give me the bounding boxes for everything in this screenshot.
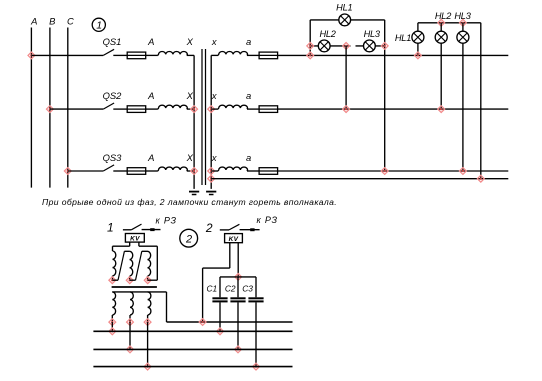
wire row2 to switch [50, 108, 103, 110]
node HL1g2-row1 [415, 52, 422, 59]
inductor primary winding row3 [158, 167, 187, 171]
node W2a bottom [126, 277, 133, 284]
svg-text:QS1: QS1 [103, 36, 122, 47]
fuse row3 primary [127, 168, 146, 175]
svg-text:X: X [186, 152, 194, 163]
wire fuse-to-coil row2 [146, 108, 158, 110]
node C phase label [67, 16, 74, 27]
inductor secondary winding row1 [218, 51, 247, 55]
node secondary common row3 [208, 168, 215, 175]
svg-text:B: B [49, 16, 55, 27]
label item 1 [107, 221, 114, 235]
capacitor C2 [230, 298, 245, 301]
label C1 [206, 284, 217, 294]
capacitor C1 [212, 298, 227, 301]
wire coil-to-common row1 [187, 54, 194, 56]
wire HL2 group2 drop [440, 23, 442, 109]
node bus-HL3 group2 [460, 19, 467, 26]
fuse row1 secondary [259, 52, 278, 59]
node W1 bottom [109, 319, 116, 326]
label C2 [225, 284, 236, 294]
svg-text:a: a [246, 90, 251, 101]
svg-text:A: A [147, 36, 154, 47]
node junction phase-row QS1 [28, 52, 35, 59]
wire C3 bottom lead [255, 302, 257, 366]
svg-text:KV: KV [130, 235, 140, 242]
winding W2 T2 primary [130, 292, 133, 322]
label a terminal row3 [246, 152, 251, 163]
switch S2 [220, 224, 260, 230]
wire HL1 group2 drop [417, 23, 419, 56]
node C1-bus [217, 328, 224, 335]
wire C1 top lead [219, 277, 221, 297]
svg-text:HL3: HL3 [454, 11, 471, 21]
switch QS3 [103, 165, 127, 171]
node HL3g2-row3 [460, 168, 467, 175]
node C2-bus [235, 346, 242, 353]
fuse row3 secondary [259, 168, 278, 175]
winding W3 T2 primary [148, 292, 151, 322]
wire coil-to-fuse secondary row3 [247, 170, 259, 172]
winding W2a T2 upper [130, 251, 133, 280]
wire link W2a-W3a [130, 251, 148, 280]
node W1-bus1 [109, 328, 116, 335]
wire delta close right [148, 246, 158, 280]
svg-text:X: X [186, 36, 194, 47]
wire C1 bottom lead [219, 302, 221, 331]
wire fuse-to-coil row3 [146, 170, 158, 172]
switch S1 [123, 224, 161, 230]
svg-text:C1: C1 [206, 284, 217, 294]
inductor secondary winding row3 [218, 167, 247, 171]
node loop-left [307, 43, 314, 50]
label X terminal row2 [186, 90, 194, 101]
label X terminal row1 [186, 36, 194, 47]
transformer core T1 [202, 49, 206, 185]
wire primary common vertical [193, 55, 195, 189]
winding W1 T2 primary [112, 292, 115, 322]
label x terminal row2 [211, 90, 217, 101]
label x terminal row3 [211, 152, 217, 163]
node HL2g2-row2 [438, 106, 445, 113]
node loop-left to row1 [307, 52, 314, 59]
wire secondary line row2 [278, 108, 509, 110]
label k RZ item1 [156, 216, 177, 226]
lamp HL1 group1 [339, 14, 351, 26]
wire HL2-HL3 branch [310, 45, 385, 47]
label a terminal row2 [246, 90, 251, 101]
node W3a bottom [144, 277, 151, 284]
lamp HL1 group2 [412, 31, 424, 43]
label QS1 [103, 36, 122, 47]
label X terminal row3 [186, 152, 194, 163]
lamp HL2 group2 [435, 31, 447, 43]
svg-text:A: A [30, 16, 37, 27]
wire common-to-coil secondary row3 [211, 170, 218, 172]
wire lamp-bus group2 [418, 22, 481, 24]
wire C3 top lead [255, 277, 257, 297]
node junction phase-row QS2 [47, 106, 54, 113]
wire coil-to-fuse secondary row2 [247, 108, 259, 110]
svg-text:QS3: QS3 [103, 152, 123, 163]
wire star-to-KV2 connector [167, 321, 293, 323]
label k RZ item2 [257, 215, 278, 225]
wire coil-to-common row2 [187, 108, 194, 110]
node secondary common row2 [208, 106, 215, 113]
label x terminal row1 [211, 36, 217, 47]
wire fuse-to-coil row1 [146, 54, 158, 56]
node W2 bottom [127, 319, 134, 326]
switch QS1 [103, 49, 127, 55]
wire phase B vertical [49, 28, 51, 188]
caption text [42, 197, 337, 207]
wire phase A vertical [30, 28, 32, 188]
wire KV1 lead right [138, 242, 140, 246]
node secondary neutral tap [208, 175, 215, 182]
node C3-bus [253, 363, 260, 370]
wire phase C vertical [67, 28, 69, 188]
wire secondary line row1 [278, 54, 509, 56]
label HL1 group2 [395, 33, 411, 43]
wire lamp-loop top [310, 19, 385, 21]
wire KV1 lead left [129, 242, 131, 246]
label item 2 [205, 221, 213, 235]
wire capacitor top bus [220, 276, 256, 278]
svg-text:x: x [211, 152, 217, 163]
label HL1 group1 [336, 3, 352, 13]
label A terminal row3 [147, 152, 154, 163]
switch QS2 [103, 103, 127, 109]
fuse row1 primary [127, 52, 146, 59]
wire common-to-coil secondary row1 [211, 54, 218, 56]
svg-text:KV: KV [229, 236, 239, 243]
svg-text:1: 1 [107, 221, 114, 235]
node connector-KV2 [199, 319, 206, 326]
node B phase label [49, 16, 55, 27]
svg-text:к РЗ: к РЗ [156, 216, 177, 226]
inductor secondary winding row2 [218, 105, 247, 109]
lamp HL3 group2 [457, 31, 469, 43]
label HL2 group2 [435, 11, 451, 21]
wire T2 star point drop [166, 292, 168, 322]
label HL3 group2 [454, 11, 471, 21]
wire common-to-coil secondary row2 [211, 108, 218, 110]
capacitor C3 [248, 298, 263, 301]
node primary common row2 [191, 106, 198, 113]
label HL2 group1 [319, 29, 335, 39]
inductor primary winding row1 [158, 51, 187, 55]
svg-text:C: C [67, 16, 74, 27]
transformer core T2 [112, 286, 157, 288]
wire neutral line row4 [211, 178, 508, 180]
svg-text:к РЗ: к РЗ [257, 215, 278, 225]
svg-text:x: x [211, 90, 217, 101]
wire bus line 2 [93, 348, 292, 350]
svg-text:HL2: HL2 [435, 11, 451, 21]
svg-text:C3: C3 [242, 284, 253, 294]
node KV2-capbus [235, 274, 242, 281]
wire HL3 group2 drop [462, 23, 464, 171]
label C3 [242, 284, 253, 294]
wire mid branch to row2 [345, 46, 347, 109]
lamp HL2 group1 [318, 40, 330, 52]
svg-text:2: 2 [185, 233, 192, 245]
fuse row2 secondary [259, 106, 278, 113]
node loop-right [381, 43, 388, 50]
node primary common row3 [191, 168, 198, 175]
svg-text:A: A [147, 90, 154, 101]
wire lamp-loop left vertical [309, 20, 311, 56]
node W1a bottom [109, 277, 116, 284]
label A terminal row2 [147, 90, 154, 101]
node busdrop-row4 [477, 175, 484, 182]
wire row3 to switch [68, 170, 104, 172]
svg-text:a: a [246, 152, 251, 163]
wire coil-to-common row3 [187, 170, 194, 172]
label QS3 [103, 152, 123, 163]
wire delta bus left [113, 245, 130, 247]
inductor primary winding row2 [158, 105, 187, 109]
wire link W1a-W2a [113, 251, 130, 280]
arrow to RZ item1 [150, 228, 154, 231]
label QS2 [103, 90, 123, 101]
node bus-HL2 group2 [438, 19, 445, 26]
ground primary neutral [189, 192, 199, 195]
lamp HL3 group1 [364, 40, 376, 52]
wire secondary common vertical [210, 55, 212, 189]
svg-text:a: a [246, 36, 251, 47]
node right-row3 [381, 168, 388, 175]
wire W1 to bus1 [111, 322, 113, 331]
wire lamp-bus right drop [480, 23, 482, 179]
wire C2 bottom lead [237, 302, 239, 349]
callout circle 1 [92, 18, 105, 31]
wire primary bus T2 [112, 291, 166, 293]
node W2-bus2 [127, 346, 134, 353]
svg-text:X: X [186, 90, 194, 101]
wire W2 to bus2 [129, 322, 131, 349]
svg-text:x: x [211, 36, 217, 47]
svg-text:QS2: QS2 [103, 90, 123, 101]
svg-text:HL3: HL3 [364, 29, 381, 39]
wire KV2 lead left [203, 243, 230, 322]
wire bus line 3 [93, 366, 292, 368]
winding W3a T2 upper [148, 251, 151, 280]
wire C2 top lead [237, 277, 239, 297]
svg-text:A: A [147, 152, 154, 163]
wire W3 to bus3 [147, 322, 149, 367]
svg-text:HL1: HL1 [336, 3, 352, 13]
label HL3 group1 [364, 29, 381, 39]
meter KV2 box [225, 234, 243, 243]
label A terminal row1 [147, 36, 154, 47]
fuse row2 primary [127, 106, 146, 113]
wire secondary line row3 [278, 170, 509, 172]
wire delta bus right [139, 245, 157, 247]
node A phase label [30, 16, 37, 27]
svg-text:C2: C2 [225, 284, 236, 294]
node mid-row2 [343, 106, 350, 113]
node loop-mid [343, 43, 350, 50]
node W3 bottom [144, 319, 151, 326]
wire bus line 1 [93, 330, 292, 332]
ground secondary neutral [206, 192, 216, 195]
svg-text:1: 1 [96, 20, 102, 32]
node junction phase-row QS3 [64, 168, 71, 175]
wire row1 to switch [31, 54, 103, 56]
wire lamp-loop right vertical [384, 20, 386, 171]
meter KV1 box [125, 234, 144, 243]
arrow to RZ item2 [250, 228, 254, 231]
wire KV2 lead right [237, 243, 239, 277]
svg-text:При обрыве одной из фаз, 2 лам: При обрыве одной из фаз, 2 лампочки стан… [42, 197, 337, 207]
svg-text:2: 2 [205, 221, 213, 235]
svg-text:HL2: HL2 [319, 29, 335, 39]
node W3-bus3 [144, 363, 151, 370]
label a terminal row1 [246, 36, 251, 47]
wire coil-to-fuse secondary row1 [247, 54, 259, 56]
svg-text:HL1: HL1 [395, 33, 411, 43]
winding W1a T2 upper [113, 246, 116, 280]
callout circle 2 [180, 229, 198, 247]
